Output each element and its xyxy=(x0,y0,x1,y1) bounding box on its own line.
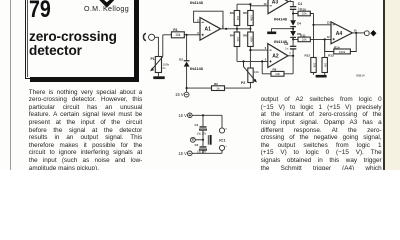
label A4 xyxy=(327,21,357,39)
svg-text:C4: C4 xyxy=(298,2,302,6)
label IN4148 for D4 xyxy=(274,16,288,21)
svg-text:14: 14 xyxy=(354,28,357,32)
svg-text:IN4148: IN4148 xyxy=(190,66,204,71)
svg-text:10k: 10k xyxy=(275,72,280,76)
svg-text:100k: 100k xyxy=(339,50,346,54)
label R6 xyxy=(243,34,253,43)
label R5 xyxy=(243,11,253,21)
-15V terminal of inset xyxy=(188,151,223,156)
label R4 xyxy=(230,34,240,43)
label 15V inset bottom xyxy=(178,151,187,156)
svg-text:10k: 10k xyxy=(236,37,240,42)
node A4 bottom input xyxy=(324,38,326,40)
label C4 xyxy=(298,2,302,11)
label R3 xyxy=(230,11,240,21)
label R10 xyxy=(300,7,307,15)
svg-text:83814: 83814 xyxy=(356,73,365,77)
label IC1 xyxy=(219,129,228,148)
IC1 supply pins xyxy=(219,115,224,153)
negative supply rail xyxy=(186,87,251,89)
label IN4148 for D2 xyxy=(190,66,204,71)
svg-text:R8: R8 xyxy=(273,68,277,72)
svg-text:R12: R12 xyxy=(304,54,310,58)
svg-text:15 V: 15 V xyxy=(178,151,187,156)
svg-text:lin: lin xyxy=(163,66,166,70)
wire A4 top input xyxy=(314,24,332,26)
resistor R11 xyxy=(293,37,331,42)
wire A2 output xyxy=(288,55,294,74)
supply terminal -15V xyxy=(184,88,189,97)
wire A4 output xyxy=(352,32,364,34)
svg-text:11: 11 xyxy=(225,129,228,131)
svg-text:1k: 1k xyxy=(216,86,220,90)
label A3 xyxy=(264,0,292,6)
label R12 xyxy=(304,54,316,68)
svg-text:10k: 10k xyxy=(302,12,307,16)
svg-text:4: 4 xyxy=(225,146,227,148)
capacitor C3 plate xyxy=(208,135,211,145)
svg-text:D4: D4 xyxy=(297,22,301,26)
label C5 xyxy=(284,42,289,50)
feedback loop wire A1 xyxy=(194,11,223,29)
label D2 xyxy=(179,58,183,62)
IC1 inset: +15V terminal xyxy=(188,113,223,118)
svg-text:10k: 10k xyxy=(236,16,240,21)
svg-text:C1: C1 xyxy=(194,123,198,127)
label IN4148 top xyxy=(190,0,204,5)
svg-text:R14: R14 xyxy=(334,45,340,49)
input connector K1 xyxy=(143,33,158,56)
title xyxy=(29,30,117,58)
svg-text:15 V: 15 V xyxy=(175,92,184,97)
svg-text:R6: R6 xyxy=(243,34,247,38)
svg-text:1n: 1n xyxy=(285,46,289,50)
label R8 xyxy=(273,68,281,76)
inset centre node and ground xyxy=(191,137,205,142)
label 15V negative rail xyxy=(175,92,184,97)
resistor R4 xyxy=(234,26,240,62)
resistor R8 xyxy=(262,61,293,76)
label R1 xyxy=(173,28,180,37)
right body text xyxy=(261,96,382,180)
label R2 xyxy=(214,82,220,91)
cream page edge strip xyxy=(385,0,400,170)
author xyxy=(84,5,129,13)
ground under R12 R13 xyxy=(316,75,327,78)
svg-text:IN4148: IN4148 xyxy=(190,0,204,5)
svg-text:13: 13 xyxy=(327,21,330,25)
resistor R12 xyxy=(311,58,316,75)
author logo diamond xyxy=(99,0,115,8)
label A2 xyxy=(265,46,292,61)
capacitor C1 xyxy=(200,115,207,140)
ground at diode midpoint xyxy=(267,28,294,34)
svg-text:D2: D2 xyxy=(179,58,183,62)
svg-text:5: 5 xyxy=(265,57,267,61)
svg-text:R5: R5 xyxy=(243,11,247,15)
resistor R1 xyxy=(163,32,200,38)
svg-text:IC1: IC1 xyxy=(219,138,226,143)
svg-text:R2: R2 xyxy=(214,82,218,86)
node D5/R11/C5 xyxy=(292,38,294,40)
svg-text:10: 10 xyxy=(264,2,267,6)
svg-text:100k: 100k xyxy=(249,36,253,42)
label R13 xyxy=(324,54,334,68)
svg-text:10k: 10k xyxy=(302,38,307,42)
node at D2 top xyxy=(186,34,188,36)
diode D4 xyxy=(290,14,296,29)
left page rule xyxy=(10,0,11,170)
svg-text:A2: A2 xyxy=(272,54,279,60)
resistor R5 xyxy=(237,4,253,25)
svg-text:C2: C2 xyxy=(194,143,198,147)
svg-text:IN4148: IN4148 xyxy=(274,16,288,21)
op-amp A2 xyxy=(268,44,288,68)
wire A2 top input xyxy=(249,49,267,51)
svg-text:6: 6 xyxy=(265,46,267,50)
label IN4148 for D5 xyxy=(274,39,288,44)
svg-text:10k: 10k xyxy=(254,70,259,74)
resistor R6 xyxy=(248,26,254,69)
svg-text:R4: R4 xyxy=(230,34,234,38)
svg-text:15 V: 15 V xyxy=(178,113,187,118)
resistor R13 xyxy=(322,39,327,75)
potentiometer P1 xyxy=(151,57,163,73)
number 79 xyxy=(29,0,51,24)
label C1 xyxy=(194,123,206,135)
label P1 xyxy=(150,57,169,70)
svg-text:R13: R13 xyxy=(328,54,334,58)
left body text xyxy=(29,89,143,173)
svg-text:10µ 25V: 10µ 25V xyxy=(197,151,207,154)
node C4/R10/D4 xyxy=(292,12,294,14)
capacitor C4 xyxy=(290,6,296,13)
label D4 xyxy=(297,22,301,26)
schematic number 83814 xyxy=(356,73,365,77)
svg-text:10µ 25V: 10µ 25V xyxy=(197,132,207,135)
wire to A3 input xyxy=(249,3,268,6)
op-amp A1 xyxy=(200,18,221,41)
resistor R3 xyxy=(234,4,240,25)
label R11 xyxy=(300,33,307,41)
svg-text:10k: 10k xyxy=(313,63,317,68)
svg-text:10k: 10k xyxy=(324,63,328,68)
label A1 xyxy=(197,19,224,35)
op-amp A4 xyxy=(331,22,352,44)
svg-text:12: 12 xyxy=(327,35,330,39)
svg-text:R1: R1 xyxy=(173,28,177,32)
ground under P1 xyxy=(153,73,164,80)
svg-text:100k: 100k xyxy=(249,15,253,21)
svg-text:A1: A1 xyxy=(205,27,212,33)
diode D2 xyxy=(184,35,190,88)
svg-text:7: 7 xyxy=(289,52,291,56)
label R14 xyxy=(334,45,346,54)
svg-text:10k: 10k xyxy=(175,33,181,37)
label C2 xyxy=(194,143,206,153)
svg-text:R3: R3 xyxy=(230,11,234,15)
right column rule xyxy=(383,0,385,170)
diode D5 xyxy=(290,29,296,40)
svg-text:A4: A4 xyxy=(336,31,343,37)
rail from R10 to R12 xyxy=(312,14,314,58)
output connector xyxy=(364,30,376,36)
resistor R10 xyxy=(293,11,313,16)
capacitor C2 xyxy=(200,140,207,154)
label 15V inset top xyxy=(178,113,187,118)
wire A2 bottom input xyxy=(237,60,268,62)
capacitor C5 xyxy=(290,39,296,55)
label D5 xyxy=(297,32,301,36)
resistor R2 xyxy=(212,86,225,91)
header box xyxy=(25,0,136,79)
label P2 xyxy=(241,70,259,85)
svg-text:P1: P1 xyxy=(150,57,154,61)
svg-text:A3: A3 xyxy=(272,0,279,6)
wire wiper to R1 line xyxy=(162,35,164,57)
resistor R14 feedback A4 xyxy=(325,33,357,54)
potentiometer P2 xyxy=(244,61,257,88)
op-amp A3 xyxy=(268,0,293,14)
wire A1 output xyxy=(221,28,252,30)
svg-text:P2: P2 xyxy=(241,81,245,85)
